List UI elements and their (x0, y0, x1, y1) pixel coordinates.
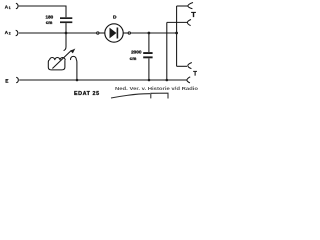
svg-text:2: 2 (9, 32, 11, 36)
svg-text:180: 180 (46, 15, 54, 20)
svg-text:1: 1 (9, 6, 11, 10)
svg-text:T: T (193, 72, 197, 78)
svg-text:T: T (191, 10, 196, 19)
svg-text:D: D (113, 15, 117, 21)
svg-text:Ned. Ver. v. Historie v/d Radi: Ned. Ver. v. Historie v/d Radio (115, 86, 198, 91)
svg-text:cm: cm (130, 56, 137, 61)
svg-text:EDAT 25: EDAT 25 (74, 91, 100, 97)
svg-text:cm: cm (46, 20, 53, 25)
svg-text:2000: 2000 (131, 50, 142, 55)
